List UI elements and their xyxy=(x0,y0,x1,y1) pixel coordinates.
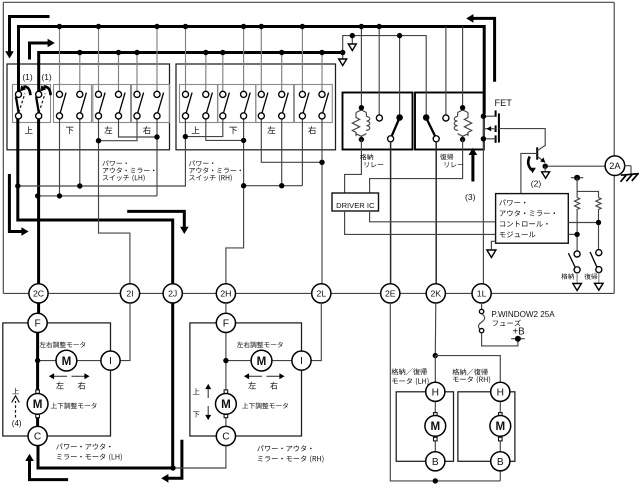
svg-text:FET: FET xyxy=(495,98,513,108)
open arrow to ground below module xyxy=(487,250,496,258)
control module box - power outer mirror control module xyxy=(496,194,569,244)
wire 2H down to pin F (RH) xyxy=(225,303,227,313)
switch blade (open) xyxy=(262,93,268,114)
wire return relay common to 2K xyxy=(435,142,437,284)
wire M to I (LH) xyxy=(75,360,101,362)
switch contact bottom xyxy=(258,113,264,119)
label up-down adjust motor RH xyxy=(242,403,288,409)
wire FET source down to 1L xyxy=(482,116,484,284)
wire M to I (RH) xyxy=(270,360,292,362)
motor M1 left-right adjust (LH) xyxy=(56,350,77,371)
junction dot motor LH xyxy=(35,358,40,363)
wire RIGHT1 (LH) stub to LEFT1 line xyxy=(99,119,138,141)
wire retract relay NO contact to y35.6 line xyxy=(399,36,401,115)
wire return relay NC contact to bus1 xyxy=(445,27,447,116)
wire retract relay coil to bus1 xyxy=(360,27,362,107)
switch blade (open) xyxy=(186,93,192,114)
label up-down adjust motor LH xyxy=(51,403,97,409)
wire retract relay common to 2E xyxy=(390,142,392,284)
wire thick arrow mid-left pointing right (continuation) xyxy=(9,174,22,232)
power terminal bar +B side (left) xyxy=(571,177,583,179)
wire bus-185.7 (DOWN2/LEFT2/RIGHT1 tie, RH) xyxy=(244,185,303,187)
wire thick arrow (3) pointing up at return relay xyxy=(471,155,474,182)
switch contact top xyxy=(134,91,140,97)
junction dots relay feed line y35.6 xyxy=(350,33,355,38)
switch blade (open) xyxy=(99,93,105,114)
svg-text:H: H xyxy=(432,387,439,398)
label retract relay xyxy=(360,154,373,160)
arrow left (RH) xyxy=(249,375,262,377)
switch contact top xyxy=(299,91,305,97)
wire H-M-B link retract motor RH xyxy=(499,392,501,462)
connector 2E xyxy=(381,284,400,303)
wire UP1 (RH) down from contact xyxy=(184,119,186,138)
retract motor LH frame xyxy=(396,392,453,462)
motor terminal squares (LH vertical) xyxy=(36,390,40,394)
svg-text:M: M xyxy=(33,398,43,411)
switch contact top xyxy=(319,91,325,97)
switch blade (open) xyxy=(244,93,250,114)
wire bus2 tap to UP2 (RH) xyxy=(205,53,207,92)
wire return relay coil to bus1 xyxy=(462,27,464,107)
svg-text:F: F xyxy=(223,318,229,329)
connector 2L xyxy=(312,284,331,303)
switch assembly box - power outer mirror switch RH xyxy=(176,64,336,150)
wire bus-195.9 (UP2/DOWN1/RIGHT2 tie, LH) xyxy=(38,195,157,197)
pin I (RH) xyxy=(292,351,311,370)
relay box - retract relay (kakunou) xyxy=(343,93,413,150)
pin C (RH) xyxy=(216,426,235,445)
svg-text:(1): (1) xyxy=(41,72,51,82)
wire thick continuation with arrow down near 2J xyxy=(127,211,184,227)
svg-text:2K: 2K xyxy=(430,289,441,299)
wire DOWN1 (RH) stub to UP1 line xyxy=(185,119,222,137)
motor terminal squares retract LH xyxy=(434,413,438,417)
wire control module to ground arrow (bottom-left) xyxy=(491,241,495,250)
label left-right adjust motor LH xyxy=(39,342,85,348)
wire 2K down to retract motor junction xyxy=(434,303,437,356)
connector 2J xyxy=(163,284,182,303)
junction dot motor RH xyxy=(223,358,228,363)
return relay NC contact xyxy=(443,115,449,121)
wire thick arrow top-right pointing left xyxy=(473,18,495,81)
ground symbol (chassis) xyxy=(621,174,639,176)
switch sub-box UP (RH) xyxy=(180,85,218,123)
transistor FET Q1 (MOSFET) xyxy=(495,110,497,116)
wire thick arrow top-left pointing down xyxy=(10,17,50,53)
relay coil - retract relay xyxy=(352,108,366,136)
wire bus1 tap to LEFT1 (LH) xyxy=(98,27,100,92)
motor M5 retract/return (LH) xyxy=(425,416,446,437)
label left right arrows LH xyxy=(56,382,64,389)
wire connector row bus xyxy=(3,292,614,294)
wire FET gate to transistor collector xyxy=(499,129,545,146)
wire RIGHT2 (RH) down to 2L xyxy=(321,119,323,284)
switch contact bottom xyxy=(77,113,83,119)
label UP DOWN LEFT RIGHT switch LH xyxy=(25,126,33,133)
switch - retract position sense xyxy=(574,251,580,257)
svg-text:1L: 1L xyxy=(477,289,487,299)
retract relay armature xyxy=(392,120,399,137)
switch blade (open) xyxy=(282,93,288,114)
switch sub-box DOWN (LH) xyxy=(54,85,92,123)
label power outer mirror switch LH xyxy=(102,160,126,166)
wire 2I down to pin I (LH) xyxy=(120,303,130,361)
motor terminal squares (RH lateral) xyxy=(251,359,255,363)
svg-text:2I: 2I xyxy=(126,289,133,299)
svg-text:H: H xyxy=(497,387,504,398)
wire ground rail top xyxy=(3,1,614,3)
switch contact bottom xyxy=(299,113,305,119)
motor M2 up-down adjust (LH) xyxy=(27,394,48,415)
switch blade original position (dashed) xyxy=(39,94,45,113)
switch contact bottom xyxy=(95,113,101,119)
motor terminal squares (RH vertical) xyxy=(224,390,228,394)
wire bus2 tap to LEFT2 (LH) xyxy=(118,53,120,92)
switch blade original position (dashed) xyxy=(19,94,25,113)
svg-text:M: M xyxy=(221,398,231,411)
switch sub-box UP (LH) xyxy=(13,85,51,123)
junction dots inside switch LH xyxy=(96,138,101,143)
junction dot B bus xyxy=(433,478,438,483)
switch contact top xyxy=(258,91,264,97)
switch blade (closed) xyxy=(36,97,39,113)
wire control module right lower pin to R1 xyxy=(568,233,577,235)
retract relay NC contact xyxy=(376,115,382,121)
wire 2L down to pin I (RH) xyxy=(311,303,321,361)
connector 2A xyxy=(605,156,625,176)
motor M3 left-right adjust (RH) xyxy=(251,350,272,371)
dashed arrow up with (4) xyxy=(15,401,17,418)
retract relay common contact xyxy=(388,136,394,142)
label return relay xyxy=(440,154,453,160)
wire retract sense switch to ground arrow xyxy=(576,273,578,283)
junction dots bus2 xyxy=(77,50,82,55)
svg-text:DRIVER IC: DRIVER IC xyxy=(336,201,375,210)
wire LEFT1 (RH) jog to 2L line xyxy=(261,119,322,163)
pin F (RH) xyxy=(216,313,235,332)
switch contact bottom xyxy=(15,113,21,119)
svg-text:M: M xyxy=(62,355,72,368)
connector 2H xyxy=(216,284,235,303)
switch contact top xyxy=(15,91,21,97)
wire thick arrow pointing right (circuit continuation) xyxy=(30,43,49,60)
wire R1 down to module lower pin xyxy=(576,211,578,251)
switch contact top xyxy=(154,91,160,97)
wire terminal down to resistors xyxy=(576,178,578,198)
wire thick bus1 from UP switch contact 1 to FET drain xyxy=(19,27,485,115)
resistor R2 (pull-up right) xyxy=(596,198,601,211)
switch blade (open) xyxy=(119,93,125,114)
wire B bus up to B (RH motor) xyxy=(499,471,501,481)
switch contact top xyxy=(279,91,285,97)
actuation arrow (1) left contact xyxy=(23,87,30,96)
junction dot motor common node xyxy=(170,465,175,470)
wire junction down to H (LH motor) xyxy=(434,356,436,383)
wire bus1 tap to LEFT1 (RH) xyxy=(260,27,262,92)
label retract return motor RH xyxy=(452,369,487,376)
switch contact bottom xyxy=(56,113,62,119)
connector 2C xyxy=(29,284,48,303)
return relay NO contact (closed, filled) xyxy=(423,114,430,121)
switch blade (open) xyxy=(303,93,309,114)
pin C (LH) xyxy=(28,426,47,445)
svg-text:C: C xyxy=(222,432,229,443)
label left right arrows RH xyxy=(248,382,256,389)
label power outer mirror motor RH xyxy=(257,445,311,451)
transistor Q2 (NPN) xyxy=(536,147,538,159)
svg-text:2C: 2C xyxy=(33,289,44,299)
label UP DOWN LEFT RIGHT switch RH xyxy=(192,126,200,133)
motor terminal squares retract RH xyxy=(499,413,503,417)
svg-text:M: M xyxy=(257,355,267,368)
arrow up (RH vertical) xyxy=(207,389,209,398)
svg-text:I: I xyxy=(109,356,112,367)
fuse P.WINDOW2 25A xyxy=(479,309,483,313)
wire RIGHT2 (LH) down to bus-195.9 xyxy=(156,119,158,196)
wire bus1 tap to DOWN1 (LH) xyxy=(59,27,61,92)
wire thick bus2 from UP switch contact 2 to retract relay area xyxy=(39,53,343,92)
switch sub-box LEFT (LH) xyxy=(93,85,131,123)
label retract return motor LH xyxy=(392,368,427,375)
svg-text:I: I xyxy=(300,356,303,367)
wire R2 down to module upper pin xyxy=(598,211,600,250)
wire retract relay NC contact to bus1 xyxy=(378,27,380,116)
pin B retract motor LH xyxy=(426,452,445,471)
wire bus2 end up-jog to y35.6 line xyxy=(343,36,427,115)
wire bus1 tap to DOWN2 (RH) xyxy=(243,27,245,92)
switch contact bottom xyxy=(220,113,226,119)
power terminal +B xyxy=(511,338,525,340)
wire thick from UP switch contact1 down to 2J xyxy=(18,119,173,284)
wire retract relay coil to DRIVER IC xyxy=(345,140,362,194)
wire pin C RH down-left to motor common node xyxy=(175,446,226,469)
svg-text:F: F xyxy=(34,318,40,329)
switch contact top xyxy=(95,91,101,97)
wire bus1 tap to RIGHT1 (RH) xyxy=(301,27,303,92)
return relay common contact xyxy=(433,136,439,142)
wire return relay coil to DRIVER IC xyxy=(370,140,463,194)
svg-text:(3): (3) xyxy=(465,192,476,202)
switch contact bottom xyxy=(182,113,188,119)
svg-text:(2): (2) xyxy=(531,178,542,188)
switch contact top xyxy=(203,91,209,97)
label power outer mirror switch RH xyxy=(189,160,213,166)
svg-text:(4): (4) xyxy=(12,419,22,428)
mirror motor LH box outline xyxy=(3,323,111,436)
wire thick arrow pointing left near motor LH (continuation) xyxy=(168,440,182,479)
switch contact top xyxy=(77,91,83,97)
switch blade (open) xyxy=(223,93,229,114)
svg-text:2H: 2H xyxy=(220,289,231,299)
svg-text:(1): (1) xyxy=(22,72,32,82)
mirror motor RH box outline xyxy=(190,323,302,436)
continuation open arrow below bus2 end xyxy=(342,53,344,59)
label retract return sense switches xyxy=(561,273,574,279)
svg-text:2L: 2L xyxy=(316,289,326,299)
pin H retract motor LH xyxy=(426,382,445,401)
switch contact bottom xyxy=(279,113,285,119)
switch contact top xyxy=(220,91,226,97)
return relay armature xyxy=(427,120,435,137)
continuation open arrow below emitter xyxy=(544,166,546,171)
wire thick from UP switch contact2 down to 2C xyxy=(37,119,40,284)
wire control module right upper pin to R2 xyxy=(568,222,598,224)
switch contact top xyxy=(241,91,247,97)
wire thick arrow bottom-left pointing up (continuation) xyxy=(30,461,69,480)
pin B retract motor RH xyxy=(491,452,510,471)
wire bus2 tap to RIGHT2 (RH) xyxy=(321,53,323,92)
label control module xyxy=(499,199,525,205)
switch contact bottom xyxy=(319,113,325,119)
wire thick mirror motor LH internal F-M-C xyxy=(36,332,39,426)
wire ground rail left side xyxy=(2,2,4,293)
label up dashed arrow LH xyxy=(12,388,19,394)
svg-text:2A: 2A xyxy=(609,161,621,171)
svg-text:+B: +B xyxy=(512,326,525,337)
pin F (LH) xyxy=(28,313,47,332)
connector 2K xyxy=(426,284,445,303)
svg-text:M: M xyxy=(430,420,440,433)
wire motor link F junction to M horizontal (LH) xyxy=(38,360,56,362)
wire LEFT2 (RH) down to bus-185.7 xyxy=(281,119,283,186)
wire 2A to chassis ground xyxy=(624,165,631,167)
svg-text:2E: 2E xyxy=(385,289,396,299)
arrow left (LH) xyxy=(54,375,67,377)
junction dots lower buses xyxy=(15,183,20,188)
motor M4 up-down adjust (RH) xyxy=(216,394,237,415)
wire RIGHT1 (RH) down to bus-185.7 xyxy=(301,119,303,186)
svg-text:C: C xyxy=(34,432,41,443)
switch sub-box RIGHT (RH) xyxy=(294,85,332,123)
relay box - return relay (fukki) xyxy=(415,93,484,150)
switch sub-box DOWN (RH) xyxy=(218,85,256,123)
actuation arrow (2) curved xyxy=(528,157,531,170)
wire bus2 tap to RIGHT1 (LH) xyxy=(136,53,138,92)
retract motor RH frame xyxy=(458,392,515,462)
wire thick 2J down to mirror motor LH common xyxy=(38,303,173,468)
switch sub-box LEFT (RH) xyxy=(256,85,294,123)
switch contact top xyxy=(36,91,42,97)
wire return sense switch to ground arrow xyxy=(598,273,600,284)
junction dots bus1 xyxy=(57,24,62,29)
label up down arrows RH xyxy=(193,388,200,394)
wire bus1 tap to UP1 (RH) xyxy=(185,27,187,92)
wire motor link F junction to M horizontal (RH) xyxy=(226,360,251,362)
arrow down (RH vertical) xyxy=(207,406,209,415)
arrow right (RH) xyxy=(267,375,280,377)
switch contact bottom xyxy=(134,113,140,119)
resistor R1 (pull-up left) xyxy=(574,198,579,211)
switch assembly box - power outer mirror switch LH xyxy=(7,64,170,150)
actuation arrow (1) right contact xyxy=(44,87,51,96)
wire bus2 tap to DOWN2 (LH) xyxy=(79,53,81,92)
wire LEFT1 (LH) down, jog to 2I xyxy=(99,119,130,284)
connector 1L xyxy=(472,284,491,303)
continuation stub with open arrow at 352.3 xyxy=(351,36,353,44)
wire 2E down to motor B bus xyxy=(390,303,500,481)
wire transistor emitter to 2A xyxy=(545,165,605,167)
switch blade (open) xyxy=(80,93,86,114)
switch blade (open) xyxy=(323,93,329,114)
retract relay NO contact (closed, filled) xyxy=(396,114,403,121)
wire bus2 tap to LEFT2 (RH) xyxy=(281,53,283,92)
switch blade (open) xyxy=(138,93,144,114)
pin I (LH) xyxy=(101,351,120,370)
wire fuse to +B terminal xyxy=(482,333,518,346)
svg-text:B: B xyxy=(497,457,504,468)
svg-text:M: M xyxy=(495,420,505,433)
motor M6 retract/return (RH) xyxy=(490,416,511,437)
label left-right adjust motor RH xyxy=(237,342,283,348)
wire DRIVER IC to control module (lower) xyxy=(345,211,496,234)
wire cross-link between resistor columns xyxy=(577,191,598,197)
switch sub-box RIGHT (LH) xyxy=(132,85,170,123)
motor terminal squares (LH lateral) xyxy=(56,359,60,363)
wire junction to H (RH motor) xyxy=(435,356,500,383)
wire DOWN2 (LH) to node bus-186 xyxy=(79,119,81,186)
switch contact bottom xyxy=(154,113,160,119)
label fuse xyxy=(493,320,521,327)
svg-text:2J: 2J xyxy=(168,289,177,299)
switch blade (open) xyxy=(158,93,164,114)
wire H-M-B link retract motor LH xyxy=(434,392,436,462)
wire LEFT2 (LH) stub to RIGHT2 line xyxy=(119,119,158,137)
wire motor RH internal F-M-C xyxy=(225,333,227,427)
switch contact top xyxy=(182,91,188,97)
pin H retract motor RH xyxy=(491,382,510,401)
switch contact bottom xyxy=(241,113,247,119)
arrow right (LH) xyxy=(72,375,85,377)
wire DOWN2 (RH) down through junctions to 2H xyxy=(226,119,244,284)
relay coil - return relay xyxy=(458,108,472,136)
wire thick 2C down to mirror motor LH pin F xyxy=(37,303,40,314)
wire 1L to fuse xyxy=(481,303,483,309)
switch contact bottom xyxy=(115,113,121,119)
switch contact top xyxy=(56,91,62,97)
svg-text:P.WINDOW2 25A: P.WINDOW2 25A xyxy=(491,310,555,319)
switch blade (closed) xyxy=(16,97,19,113)
switch contact top xyxy=(115,91,121,97)
wire DRIVER IC to control module (upper) xyxy=(370,211,496,222)
wire bus1 tap to RIGHT2 (LH) xyxy=(156,27,158,92)
switch - return position sense xyxy=(596,250,602,256)
wire UP2 (RH) stub to DOWN2 line xyxy=(206,119,244,141)
connector 2I xyxy=(120,284,139,303)
wire DOWN1 (LH) to node bus-195.9 xyxy=(59,119,61,196)
switch contact bottom xyxy=(36,113,42,119)
wire transistor base to control module xyxy=(521,153,537,193)
wire bus2 tap to DOWN1 (RH) xyxy=(222,53,224,92)
wire ground rail right side (to 2A) xyxy=(613,2,615,293)
switch blade (open) xyxy=(206,93,212,114)
label power outer mirror motor LH xyxy=(56,443,110,449)
junction dot retract motors feed xyxy=(433,353,438,358)
switch blade (open) xyxy=(60,93,66,114)
svg-text:B: B xyxy=(432,457,439,468)
switch contact bottom xyxy=(203,113,209,119)
junction dots inside switch RH xyxy=(183,134,188,139)
wire bus-186 (UP1-LH / DOWN2-LH / UP1-RH tie) xyxy=(18,138,186,186)
driver IC box U1 xyxy=(332,193,379,211)
